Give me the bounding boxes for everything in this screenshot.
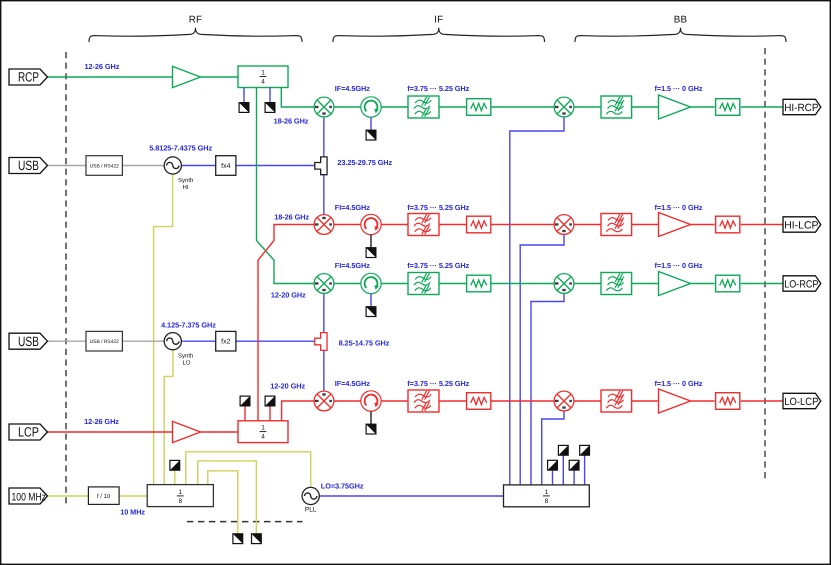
svg-text:1: 1 <box>261 425 265 432</box>
svg-text:HI-LCP: HI-LCP <box>784 219 818 231</box>
svg-text:f=1.5 ··· 0 GHz: f=1.5 ··· 0 GHz <box>655 261 703 270</box>
svg-text:IF=4.5GHz: IF=4.5GHz <box>335 84 370 93</box>
svg-text:USB: USB <box>18 158 39 173</box>
svg-text:18-26 GHz: 18-26 GHz <box>274 213 309 222</box>
svg-text:USB: USB <box>18 334 39 349</box>
svg-text:USB / RS422: USB / RS422 <box>90 339 119 345</box>
svg-text:f / 10: f / 10 <box>97 493 111 500</box>
svg-text:f=3.75 ··· 5.25 GHz: f=3.75 ··· 5.25 GHz <box>407 379 469 388</box>
svg-text:8.25-14.75 GHz: 8.25-14.75 GHz <box>339 339 390 348</box>
svg-text:LCP: LCP <box>18 425 39 440</box>
svg-text:f=1.5 ··· 0 GHz: f=1.5 ··· 0 GHz <box>655 379 703 388</box>
svg-text:LO-LCP: LO-LCP <box>784 396 818 408</box>
svg-text:Synth: Synth <box>178 353 193 360</box>
svg-text:HI: HI <box>183 184 189 191</box>
svg-text:12-26 GHz: 12-26 GHz <box>85 62 120 71</box>
svg-text:12-20 GHz: 12-20 GHz <box>271 291 306 300</box>
svg-text:HI-RCP: HI-RCP <box>784 102 818 114</box>
svg-text:5.8125-7.4375 GHz: 5.8125-7.4375 GHz <box>149 144 212 153</box>
svg-text:RCP: RCP <box>18 70 39 85</box>
svg-text:8: 8 <box>178 498 182 505</box>
svg-text:PLL: PLL <box>305 507 317 514</box>
svg-text:f=3.75 ··· 5.25 GHz: f=3.75 ··· 5.25 GHz <box>407 84 469 93</box>
svg-text:1: 1 <box>545 489 549 496</box>
svg-text:4: 4 <box>261 78 265 85</box>
svg-text:f=3.75 ··· 5.25 GHz: f=3.75 ··· 5.25 GHz <box>407 203 469 212</box>
svg-text:12-26 GHz: 12-26 GHz <box>84 417 119 426</box>
svg-text:IF: IF <box>434 14 443 25</box>
svg-text:100 MHz: 100 MHz <box>12 492 47 504</box>
svg-text:f=1.5 ··· 0 GHz: f=1.5 ··· 0 GHz <box>655 84 703 93</box>
svg-text:IF=4.5GHz: IF=4.5GHz <box>335 379 370 388</box>
svg-text:LO=3.75GHz: LO=3.75GHz <box>321 482 364 491</box>
svg-text:4: 4 <box>261 434 265 441</box>
svg-text:8: 8 <box>545 498 549 505</box>
svg-text:f=1.5 ··· 0 GHz: f=1.5 ··· 0 GHz <box>655 203 703 212</box>
svg-text:1: 1 <box>178 489 182 496</box>
svg-text:LO-RCP: LO-RCP <box>784 278 818 290</box>
svg-text:f=3.75 ··· 5.25 GHz: f=3.75 ··· 5.25 GHz <box>407 261 469 270</box>
svg-text:RF: RF <box>189 14 202 25</box>
svg-text:fx4: fx4 <box>221 162 230 170</box>
svg-text:LO: LO <box>183 360 191 367</box>
svg-text:FI=4.5GHz: FI=4.5GHz <box>335 203 370 212</box>
svg-text:10 MHz: 10 MHz <box>120 507 145 516</box>
svg-text:fx2: fx2 <box>221 338 230 346</box>
svg-text:Synth: Synth <box>178 177 193 184</box>
svg-text:23.25-29.75 GHz: 23.25-29.75 GHz <box>337 158 392 167</box>
svg-text:18-26 GHz: 18-26 GHz <box>274 116 309 125</box>
svg-text:FI=4.5GHz: FI=4.5GHz <box>335 261 370 270</box>
svg-text:12-20 GHz: 12-20 GHz <box>270 382 305 391</box>
svg-text:BB: BB <box>674 14 688 25</box>
svg-text:USB / RS422: USB / RS422 <box>90 163 119 169</box>
svg-text:4.125-7.375 GHz: 4.125-7.375 GHz <box>161 321 216 330</box>
svg-text:1: 1 <box>261 70 265 77</box>
